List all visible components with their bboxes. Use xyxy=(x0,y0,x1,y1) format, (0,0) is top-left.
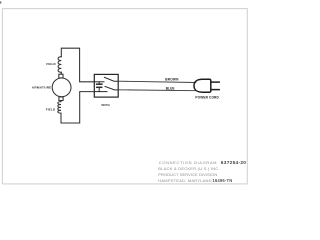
svg-text:HAMPSTEAD, MARYLAND: HAMPSTEAD, MARYLAND xyxy=(158,178,211,183)
power cord plug P1 xyxy=(194,79,211,92)
field coil L2 (bottom) xyxy=(58,102,61,114)
wire: bottom field coil to switch (down, right, up) xyxy=(61,92,94,123)
wire: brown lead to power cord xyxy=(118,81,196,82)
svg-text:PRODUCT SERVICE DIVISION: PRODUCT SERVICE DIVISION xyxy=(158,172,217,177)
wire: switch internal top lead xyxy=(94,81,104,83)
wire: coil L1 to top brush xyxy=(60,72,62,74)
svg-text:FIELD: FIELD xyxy=(46,62,55,66)
svg-text:SWITCH: SWITCH xyxy=(101,103,110,108)
svg-text:BLUE: BLUE xyxy=(166,87,175,91)
plug prong (top) xyxy=(211,81,220,83)
armature M1 circle xyxy=(52,78,71,97)
switch pole blade (bottom) xyxy=(105,87,118,90)
svg-text:ARMATURE: ARMATURE xyxy=(32,86,52,90)
brush (bottom) xyxy=(59,97,63,101)
svg-text:CONNECTION DIAGRAM: CONNECTION DIAGRAM xyxy=(159,160,217,165)
svg-text:BLACK & DECKER (U.S.) INC.: BLACK & DECKER (U.S.) INC. xyxy=(158,166,220,171)
svg-text:BROWN: BROWN xyxy=(165,77,179,81)
svg-text:FIELD: FIELD xyxy=(46,108,55,112)
brush (top) xyxy=(59,74,63,78)
switch pole blade (top) xyxy=(104,77,118,81)
plug prong (bottom) xyxy=(211,89,220,91)
switch S1 enclosure xyxy=(94,74,118,97)
page frame (scan border) xyxy=(2,9,247,184)
wire: top field coil to switch (up, right, down) xyxy=(61,48,94,82)
svg-text:637254-20: 637254-20 xyxy=(221,160,247,166)
field coil L1 (top) xyxy=(58,57,61,73)
wire: bottom brush to coil L2 xyxy=(60,101,62,102)
wire: blue lead to power cord xyxy=(118,89,195,92)
svg-text:16496-TN: 16496-TN xyxy=(212,178,232,183)
wire: switch internal bottom lead xyxy=(94,91,107,93)
scan speck top-left xyxy=(0,2,1,4)
capacitor C1 (in switch) xyxy=(98,82,100,84)
svg-text:POWER CORD: POWER CORD xyxy=(195,96,219,100)
